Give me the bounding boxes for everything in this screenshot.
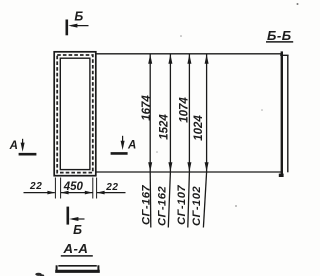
- section marker А left: bar: [19, 153, 37, 156]
- section А-А profile: top line: [58, 265, 97, 267]
- dimension line 4 (1024): [203, 54, 208, 227]
- frame outer rectangle: [54, 52, 96, 176]
- svg-text:СГ-162: СГ-162: [157, 186, 169, 226]
- frame inner rectangle: [60, 58, 90, 169]
- svg-text:СГ-167: СГ-167: [140, 185, 152, 225]
- svg-text:1524: 1524: [159, 114, 171, 140]
- svg-text:450: 450: [63, 181, 84, 193]
- bottom extension line: [96, 171, 281, 173]
- svg-text:СГ-107: СГ-107: [176, 185, 188, 225]
- svg-text:А: А: [127, 140, 136, 152]
- section marker Б top: arrow: [68, 24, 88, 28]
- section А-А profile: left end: [56, 265, 58, 270]
- svg-text:1074: 1074: [178, 97, 190, 123]
- section marker А left: arrow: [21, 139, 25, 152]
- section marker А right: arrow: [121, 136, 125, 150]
- section title А-А underline: [61, 255, 93, 257]
- svg-text:Б-Б: Б-Б: [267, 28, 292, 43]
- svg-text:А-А: А-А: [63, 241, 89, 256]
- section marker А right: bar: [111, 152, 128, 155]
- bottom dimension line 450: [61, 191, 93, 195]
- svg-text:22: 22: [105, 182, 118, 193]
- svg-text:Б: Б: [73, 223, 82, 237]
- ink blob bottom left: [35, 273, 41, 276]
- dimension line 3 (1074): [187, 54, 191, 227]
- section А-А profile: bottom plate: [55, 270, 100, 273]
- section Б-Б profile: top cap: [280, 54, 288, 56]
- svg-text:1024: 1024: [193, 115, 205, 141]
- scan speckles: [297, 3, 299, 5]
- section Б-Б profile: bottom foot: [279, 174, 284, 177]
- svg-text:Б: Б: [74, 9, 83, 23]
- top extension line: [96, 53, 281, 55]
- section marker Б bottom: arrow: [69, 217, 84, 221]
- svg-text:А: А: [9, 140, 18, 152]
- section marker Б bottom: bar: [67, 207, 70, 225]
- section А-А profile: right end: [97, 265, 99, 270]
- dimension line 1 (1674): [148, 54, 152, 227]
- section Б-Б profile: left web line: [281, 51, 283, 176]
- section Б-Б profile: right line: [287, 55, 289, 172]
- section marker Б top: bar: [66, 20, 69, 36]
- bottom dimension line right 22: [97, 191, 126, 195]
- bottom dimension line left 22: [24, 191, 56, 195]
- svg-text:СГ-102: СГ-102: [191, 186, 203, 226]
- dimension line 2 (1524): [168, 54, 172, 227]
- frame band dashed fill: [57, 55, 93, 173]
- svg-text:1674: 1674: [141, 95, 153, 121]
- section title Б-Б underline: [266, 41, 293, 43]
- bottom dimension extension lines: [55, 178, 96, 199]
- svg-text:22: 22: [29, 181, 42, 192]
